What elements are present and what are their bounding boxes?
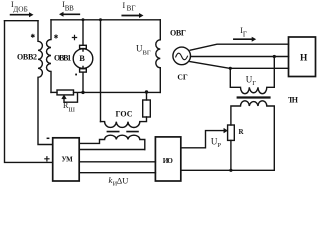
svg-text:ИО: ИО bbox=[163, 157, 173, 165]
svg-text:ДОБ: ДОБ bbox=[13, 6, 28, 14]
svg-text:UГ: UГ bbox=[246, 74, 257, 87]
svg-text:ГОС: ГОС bbox=[116, 110, 133, 119]
svg-text:ОВВ1: ОВВ1 bbox=[54, 53, 71, 62]
svg-text:UР: UР bbox=[211, 137, 222, 150]
svg-text:В: В bbox=[79, 54, 85, 63]
svg-text:ОВВ2: ОВВ2 bbox=[17, 53, 37, 62]
svg-text:Н: Н bbox=[300, 54, 308, 64]
svg-text:R: R bbox=[239, 128, 245, 136]
svg-text:ОВГ: ОВГ bbox=[170, 28, 186, 37]
svg-text:Г: Г bbox=[243, 31, 247, 39]
svg-text:ΔU: ΔU bbox=[117, 175, 129, 185]
svg-text:ВВ: ВВ bbox=[65, 5, 74, 13]
svg-text:ВГ: ВГ bbox=[127, 4, 136, 12]
svg-text:ТН: ТН bbox=[288, 96, 299, 105]
svg-text:СГ: СГ bbox=[177, 72, 187, 81]
svg-text:УМ: УМ bbox=[62, 156, 74, 164]
svg-text:I: I bbox=[123, 1, 126, 10]
svg-text:UВГ: UВГ bbox=[136, 44, 151, 57]
